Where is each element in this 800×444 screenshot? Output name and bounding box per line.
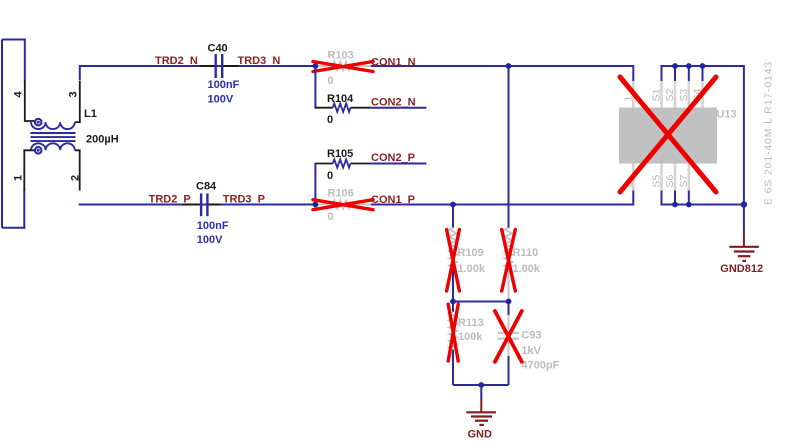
svg-text:S1: S1: [651, 88, 663, 101]
svg-text:C40: C40: [208, 43, 228, 55]
svg-text:0: 0: [327, 114, 333, 126]
resistor R110 (not fitted, greyed): [505, 228, 541, 302]
wire middle row: [453, 301, 509, 303]
svg-text:100k: 100k: [458, 331, 483, 343]
red X over R110: [502, 230, 516, 292]
junction: [700, 63, 706, 69]
wire CON2_N stub: [371, 107, 427, 109]
svg-text:CON2_N: CON2_N: [371, 96, 416, 108]
junction: [506, 63, 512, 69]
pin S3 of U13: [678, 81, 690, 108]
svg-text:S5: S5: [651, 174, 663, 187]
wire vertical from top to R110: [508, 66, 510, 228]
wire branch to R104: [314, 66, 316, 108]
svg-text:1.00k: 1.00k: [458, 263, 486, 275]
svg-text:1: 1: [13, 175, 25, 181]
svg-text:CON2_P: CON2_P: [371, 152, 415, 164]
svg-text:4700pF: 4700pF: [521, 359, 559, 371]
pin 1 of U13: [622, 81, 634, 108]
resistor R106 (not fitted, greyed): [317, 187, 371, 223]
svg-text:TRD3_N: TRD3_N: [238, 55, 281, 67]
svg-text:0: 0: [328, 211, 334, 223]
svg-text:100V: 100V: [208, 94, 234, 106]
svg-text:TRD3_P: TRD3_P: [223, 194, 265, 206]
wire bottom main TRD_P net: [79, 191, 634, 205]
red X over C93: [495, 311, 522, 362]
svg-text:1kV: 1kV: [521, 345, 541, 357]
junction: [686, 202, 692, 208]
wire pin4 riser: [24, 39, 26, 82]
wire CON2_P stub: [371, 163, 427, 165]
svg-text:U13: U13: [717, 109, 737, 121]
junction: [313, 202, 319, 208]
junction: [741, 201, 747, 207]
svg-text:L1: L1: [84, 108, 97, 120]
svg-text:1: 1: [622, 96, 634, 102]
svg-text:CON1_N: CON1_N: [371, 57, 416, 69]
wire bottom right from S pins: [662, 191, 744, 205]
svg-text:TRD2_N: TRD2_N: [155, 55, 198, 67]
svg-text:2: 2: [70, 175, 82, 181]
pin S7 of U13: [678, 164, 690, 191]
junction: [450, 202, 456, 208]
pin S5 of U13: [651, 164, 663, 191]
pin S2 of U13: [664, 81, 676, 108]
capacitor C40: [200, 43, 240, 106]
svg-text:R104: R104: [327, 93, 354, 105]
capacitor C84: [182, 181, 229, 247]
svg-text:3: 3: [68, 91, 80, 97]
svg-text:R113: R113: [458, 317, 484, 329]
ground GND: [466, 385, 496, 441]
wire left loop: [2, 40, 26, 228]
svg-text:GND812: GND812: [720, 263, 763, 275]
wire pin3 riser: [79, 66, 81, 81]
wire pin1 drop: [23, 190, 25, 229]
capacitor C93 (not fitted, greyed): [498, 302, 560, 386]
junction: [672, 63, 678, 69]
svg-text:4: 4: [13, 91, 25, 98]
junction: [686, 63, 692, 69]
svg-text:C93: C93: [521, 330, 541, 342]
svg-text:C84: C84: [196, 181, 217, 193]
wire top main TRD net: [79, 66, 634, 81]
svg-text:1.00k: 1.00k: [513, 263, 541, 275]
junction: [450, 299, 456, 305]
svg-text:CON1_P: CON1_P: [371, 194, 415, 206]
svg-text:100nF: 100nF: [197, 220, 229, 232]
component U13 body: [619, 108, 737, 164]
pin S6 of U13: [664, 164, 676, 191]
wire top right to S pins: [662, 66, 744, 205]
junction: [506, 299, 512, 305]
svg-text:R105: R105: [327, 148, 353, 160]
svg-text:R109: R109: [458, 247, 484, 259]
svg-text:S6: S6: [664, 174, 676, 187]
resistor R113 (not fitted, greyed): [449, 302, 484, 386]
red X over R106: [313, 200, 373, 210]
svg-text:TRD2_P: TRD2_P: [149, 194, 191, 206]
svg-text:200µH: 200µH: [86, 134, 119, 146]
svg-text:S3: S3: [678, 88, 690, 101]
red X over R109: [447, 230, 460, 292]
svg-text:0: 0: [328, 75, 334, 87]
svg-text:0: 0: [327, 170, 333, 182]
red X over U13: [620, 77, 716, 192]
resistor R104: [315, 93, 371, 126]
resistor R109 (not fitted, greyed): [449, 205, 486, 302]
svg-text:GND: GND: [468, 429, 493, 441]
pin S4 of U13: [692, 81, 704, 108]
junction: [672, 202, 678, 208]
svg-text:E 6S 201-40M L R17-0143: E 6S 201-40M L R17-0143: [763, 61, 775, 205]
red X over R103: [313, 62, 373, 72]
svg-text:100nF: 100nF: [208, 79, 240, 91]
wire branch R105 to bottom: [314, 164, 316, 205]
wire bottom row: [453, 384, 509, 386]
junction: [478, 382, 484, 388]
svg-text:S7: S7: [678, 174, 690, 187]
svg-text:R106: R106: [328, 187, 354, 199]
resistor R105: [315, 148, 371, 182]
pin 2 of U13: [622, 164, 634, 191]
svg-text:100V: 100V: [197, 234, 223, 246]
inductor L1: [13, 81, 119, 191]
resistor R103 (not fitted, greyed): [317, 50, 371, 87]
svg-text:R103: R103: [328, 50, 354, 62]
pin S1 of U13: [651, 81, 663, 108]
svg-text:R110: R110: [513, 247, 539, 259]
svg-text:S2: S2: [664, 88, 676, 101]
ground GND812: [720, 205, 763, 276]
red X over R113: [448, 304, 458, 361]
junction: [313, 63, 319, 69]
